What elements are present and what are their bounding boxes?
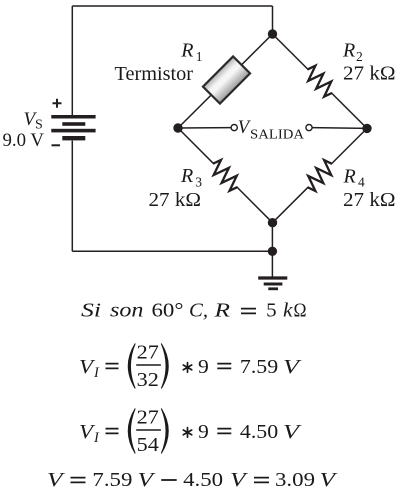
eq2 fraction bar — [136, 364, 161, 366]
svg-text:4.50: 4.50 — [183, 469, 223, 491]
svg-text:V: V — [283, 421, 303, 443]
equation 4: V = 7.59 V - 4.50 V = 3.09 V — [47, 469, 339, 491]
wire top rail drop to top node — [272, 6, 274, 30]
svg-text:SALIDA: SALIDA — [250, 126, 304, 141]
svg-text:Si: Si — [81, 300, 101, 322]
eq2 asterisk operator — [183, 363, 191, 373]
svg-text:9: 9 — [198, 356, 209, 378]
svg-text:R: R — [180, 40, 193, 62]
battery long plate 1 — [51, 115, 95, 119]
wire bridge top-right diagonal upper lead — [273, 34, 309, 70]
resistor R2 zigzag — [308, 66, 332, 97]
eq2 equals sign — [106, 364, 119, 369]
node top junction dot — [268, 29, 277, 38]
wire bridge bottom-right diagonal upper lead — [331, 128, 367, 164]
ground bar bottom — [268, 287, 278, 290]
eq3 left paren — [128, 409, 135, 454]
wire bridge bottom-left diagonal lower lead — [236, 187, 272, 223]
svg-text:R: R — [343, 165, 356, 187]
svg-text:k: k — [283, 300, 294, 322]
svg-text:27: 27 — [137, 342, 159, 364]
equation 3: V_I = (27/54) * 9 = 4.50 V — [79, 407, 303, 456]
svg-text:R: R — [213, 300, 230, 322]
svg-text:9.0 V: 9.0 V — [3, 130, 45, 151]
eq3 right paren — [161, 409, 168, 454]
svg-text:C,: C, — [189, 300, 208, 322]
svg-text:V: V — [283, 356, 303, 378]
svg-text:3: 3 — [195, 174, 202, 189]
eq4 first equals sign — [71, 478, 86, 483]
svg-text:son: son — [110, 300, 144, 322]
wire bottom horizontal rail — [72, 250, 268, 252]
svg-text:4: 4 — [358, 174, 365, 189]
svg-text:27: 27 — [137, 407, 159, 429]
wire bridge bottom-right diagonal lower lead — [273, 187, 309, 223]
svg-text:27 kΩ: 27 kΩ — [343, 189, 396, 211]
eq3 second equals sign — [217, 429, 231, 434]
svg-text:54: 54 — [137, 434, 159, 456]
svg-text:R: R — [342, 40, 355, 62]
ground bar middle — [264, 283, 283, 286]
svg-text:Ω: Ω — [294, 300, 307, 322]
eq4 second equals sign — [254, 478, 269, 483]
output terminal right circle — [306, 125, 312, 131]
node bottom junction dot — [268, 218, 277, 227]
svg-text:V: V — [138, 469, 157, 491]
ground symbol — [258, 278, 287, 289]
output terminal left circle — [231, 125, 237, 131]
wire bottom node to ground — [271, 223, 273, 278]
wire bridge top-left diagonal — [178, 34, 273, 128]
svg-text:7.59: 7.59 — [92, 469, 132, 491]
svg-text:60°: 60° — [152, 300, 184, 322]
svg-text:32: 32 — [137, 369, 159, 391]
eq2 second equals sign — [217, 364, 231, 369]
equation 2: V_I = (27/32) * 9 = 7.59 V — [79, 342, 303, 391]
svg-text:V: V — [320, 469, 339, 491]
ground bar top — [258, 276, 287, 279]
svg-text:3.09: 3.09 — [275, 469, 315, 491]
svg-text:V: V — [230, 469, 249, 491]
svg-text:9: 9 — [198, 421, 209, 443]
wire right output terminal to right node — [312, 127, 367, 130]
wire left node to output terminal — [178, 127, 231, 129]
battery short plate 1 — [62, 122, 85, 126]
wire bridge top-right diagonal lower lead — [331, 92, 367, 128]
wire top horizontal rail — [72, 5, 272, 7]
eq3 fraction bar — [136, 429, 161, 431]
eq4 minus sign — [161, 479, 177, 481]
eq2 left paren — [128, 344, 135, 389]
svg-text:V: V — [47, 469, 66, 491]
svg-text:27 kΩ: 27 kΩ — [343, 63, 396, 85]
eq2 right paren — [161, 344, 168, 389]
node right junction dot — [362, 124, 371, 133]
svg-text:Termistor: Termistor — [115, 63, 194, 85]
battery V_S plates — [51, 115, 95, 140]
svg-text:5: 5 — [266, 300, 277, 322]
wire bridge bottom-left diagonal upper lead — [178, 128, 214, 164]
battery short plate 2 — [62, 136, 85, 140]
battery minus sign — [52, 144, 61, 146]
resistor R4 zigzag — [308, 160, 332, 191]
eq3 equals sign — [106, 429, 119, 434]
node left junction dot — [173, 123, 182, 132]
resistor R3 zigzag — [213, 160, 237, 191]
wire battery bottom to bottom-left corner — [71, 141, 73, 252]
svg-text:4.50: 4.50 — [240, 421, 278, 443]
svg-text:1: 1 — [196, 49, 203, 64]
eq3 asterisk operator — [183, 428, 191, 438]
svg-text:I: I — [93, 430, 100, 446]
battery long plate 2 — [51, 129, 95, 133]
battery plus sign — [53, 99, 62, 108]
wire battery top to top-left corner — [71, 6, 73, 115]
thermistor R1 body — [203, 56, 250, 103]
eq1 equals sign — [241, 309, 256, 314]
svg-text:27 kΩ: 27 kΩ — [149, 189, 202, 211]
svg-text:R: R — [180, 165, 193, 187]
node ground junction dot — [268, 247, 277, 256]
svg-text:I: I — [93, 365, 100, 381]
svg-text:7.59: 7.59 — [240, 356, 278, 378]
equation 1: Si son 60 C, R = 5 k-ohm — [81, 300, 307, 322]
